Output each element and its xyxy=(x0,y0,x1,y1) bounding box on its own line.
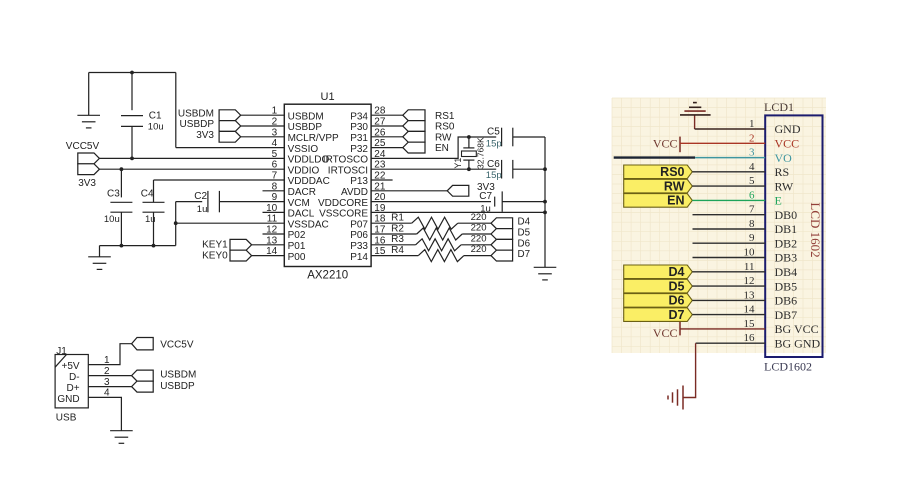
svg-text:E: E xyxy=(775,194,782,208)
wire USB pin 2 xyxy=(88,375,131,377)
wire LCD pin 15 BG VCC xyxy=(680,328,765,330)
svg-text:IRTOSCI: IRTOSCI xyxy=(328,165,368,176)
svg-text:8: 8 xyxy=(749,218,755,230)
svg-text:14: 14 xyxy=(266,246,278,257)
wire C2 left to ground rail xyxy=(175,202,177,246)
svg-text:10u: 10u xyxy=(148,121,164,132)
svg-text:3V3: 3V3 xyxy=(196,130,214,141)
port USBDP (USB) xyxy=(132,381,154,392)
wire pin 8 DACR stub xyxy=(263,190,285,192)
port EN xyxy=(403,142,425,153)
power port VCC (pin 2) xyxy=(653,136,680,152)
svg-text:RS0: RS0 xyxy=(660,165,684,179)
earth ground (LCD bottom) xyxy=(668,386,683,410)
wire USB pin 1 to VCC5V xyxy=(88,344,131,365)
wire R3 to port D6 xyxy=(461,244,491,246)
svg-text:MCLR/VPP: MCLR/VPP xyxy=(288,133,339,144)
svg-text:D4: D4 xyxy=(669,265,685,279)
svg-text:1: 1 xyxy=(749,118,755,130)
svg-text:U1: U1 xyxy=(321,91,335,103)
svg-text:P13: P13 xyxy=(350,176,368,187)
svg-text:P34: P34 xyxy=(350,111,368,122)
svg-text:2: 2 xyxy=(272,117,278,128)
svg-text:RS1: RS1 xyxy=(435,111,455,122)
port D5 xyxy=(491,229,513,240)
node C3/pin6 junction xyxy=(120,167,124,171)
wire pin 10 DACL stub xyxy=(263,211,285,213)
svg-text:7: 7 xyxy=(749,204,755,216)
svg-text:6: 6 xyxy=(272,160,278,171)
svg-text:RW: RW xyxy=(435,132,452,143)
wire pin 25 to port EN xyxy=(371,147,404,149)
port KEY1 (to pin 13) xyxy=(230,239,252,250)
wire USB pin 3 xyxy=(88,386,131,388)
svg-text:RW: RW xyxy=(664,179,685,193)
wire pin 15 to R4 xyxy=(371,255,418,257)
op-amp U1 AX2210 chip body xyxy=(284,91,371,281)
ground (USB) xyxy=(110,430,133,432)
svg-text:220: 220 xyxy=(471,212,487,223)
svg-text:10: 10 xyxy=(744,247,756,259)
svg-text:BG VCC: BG VCC xyxy=(775,322,819,336)
wire pin 2 xyxy=(241,125,285,127)
node C1/rail junction xyxy=(130,71,134,75)
svg-text:BG GND: BG GND xyxy=(775,336,821,350)
svg-text:RS0: RS0 xyxy=(435,122,455,133)
wire ground rail under C3 C4 xyxy=(100,245,176,247)
port D7 xyxy=(491,250,513,261)
port D6 xyxy=(491,239,513,250)
svg-text:3: 3 xyxy=(272,127,278,138)
wire pin 21 AVDD xyxy=(371,190,447,192)
wire pin 27 to port RS0 xyxy=(371,125,404,127)
svg-text:VSSIO: VSSIO xyxy=(288,144,319,155)
wire pin 9 VCM xyxy=(219,201,284,203)
wire pin 18 to R1 xyxy=(371,222,412,224)
resistor R2 220 xyxy=(391,223,486,240)
port RW xyxy=(403,131,425,142)
svg-text:10: 10 xyxy=(266,203,278,214)
svg-text:+5V: +5V xyxy=(62,361,80,372)
port USBDP (to pin 2) xyxy=(219,121,241,132)
port D7 (yellow) xyxy=(624,308,693,322)
svg-text:KEY1: KEY1 xyxy=(202,240,228,251)
svg-text:LCD1: LCD1 xyxy=(764,100,794,114)
svg-text:P33: P33 xyxy=(350,241,368,252)
ground (top left) xyxy=(77,73,100,128)
wire pin 3 xyxy=(241,136,285,138)
svg-text:12: 12 xyxy=(744,275,755,287)
svg-text:9: 9 xyxy=(749,232,755,244)
wire pin 1 xyxy=(241,114,285,116)
svg-text:P01: P01 xyxy=(288,241,306,252)
svg-text:DB2: DB2 xyxy=(775,236,798,250)
svg-text:USBDP: USBDP xyxy=(160,381,195,392)
svg-text:USB: USB xyxy=(56,413,77,424)
svg-text:3: 3 xyxy=(749,147,755,159)
svg-text:P06: P06 xyxy=(350,230,368,241)
svg-text:KEY0: KEY0 xyxy=(202,251,228,262)
power port 3V3 (left) xyxy=(78,164,100,175)
power port VCC (pin 15) xyxy=(653,322,680,340)
svg-text:DB1: DB1 xyxy=(775,222,798,236)
wire LCD pin 14 xyxy=(692,314,765,316)
svg-text:C5: C5 xyxy=(487,126,500,137)
wire rail down to pin 4 xyxy=(175,73,177,148)
wire LCD pin 16 BG GND xyxy=(696,342,766,344)
svg-text:D5: D5 xyxy=(669,279,685,293)
svg-text:1u: 1u xyxy=(145,214,156,225)
wire LCD pin 5 xyxy=(692,185,765,187)
svg-text:VCM: VCM xyxy=(288,198,310,209)
svg-text:220: 220 xyxy=(471,223,487,234)
svg-text:D6: D6 xyxy=(518,238,531,249)
svg-text:12: 12 xyxy=(266,225,278,236)
svg-text:LCD 1602: LCD 1602 xyxy=(808,202,823,257)
svg-text:GND: GND xyxy=(57,394,79,405)
svg-text:DB5: DB5 xyxy=(775,279,798,293)
wire pin16 down to earth xyxy=(683,343,696,397)
svg-text:R1: R1 xyxy=(391,213,404,224)
wire VSSIO pin 4 xyxy=(176,147,284,149)
svg-text:C2: C2 xyxy=(194,191,207,202)
svg-text:DB3: DB3 xyxy=(775,251,798,265)
svg-text:P14: P14 xyxy=(350,252,368,263)
node crystal top xyxy=(467,135,471,139)
svg-text:VSSDAC: VSSDAC xyxy=(288,219,329,230)
svg-text:VSSCORE: VSSCORE xyxy=(319,209,368,220)
crystal Y1 32.768K xyxy=(453,137,486,169)
svg-text:LCD1602: LCD1602 xyxy=(764,359,812,373)
svg-text:R3: R3 xyxy=(391,234,404,245)
svg-text:D7: D7 xyxy=(518,249,531,260)
svg-text:AX2210: AX2210 xyxy=(307,269,348,281)
svg-text:D-: D- xyxy=(69,372,80,383)
node C4/ground rail xyxy=(152,244,156,248)
capacitor C6 15p xyxy=(486,159,513,181)
wire pin 5 VDDLDO xyxy=(99,157,284,159)
wire pin 7 VDDDAC xyxy=(154,179,285,181)
svg-text:VDDDAC: VDDDAC xyxy=(288,176,330,187)
port D4 (yellow) xyxy=(624,265,693,279)
wire R2 to port D5 xyxy=(462,233,491,235)
wire pin 26 to port RW xyxy=(371,136,404,138)
wire pin 6 VDDIO xyxy=(99,168,284,170)
wire pin 23 IRTOSCI to C6 xyxy=(371,168,496,170)
wire LCD pin 2 VCC xyxy=(680,142,765,144)
resistor R4 220 xyxy=(391,244,486,261)
wire top rail VSSIO net xyxy=(89,72,176,74)
ground (right bus) xyxy=(534,266,557,268)
svg-text:USBDM: USBDM xyxy=(288,111,324,122)
wire pin 16 to R3 xyxy=(371,244,416,246)
svg-text:4: 4 xyxy=(272,138,278,149)
capacitor C1 10u xyxy=(121,73,164,159)
power port VCC5V (USB) xyxy=(132,338,154,350)
svg-text:1: 1 xyxy=(272,106,278,117)
wire pin 19 VSSCORE to bus xyxy=(371,211,545,213)
svg-text:P32: P32 xyxy=(350,144,368,155)
svg-text:DB6: DB6 xyxy=(775,294,798,308)
wire LCD pin 4 xyxy=(692,171,765,173)
resistor R1 220 xyxy=(391,212,486,229)
wire LCD pin 3 VO teal xyxy=(695,157,765,159)
svg-text:220: 220 xyxy=(471,244,487,255)
wire pin 20 VDDCORE xyxy=(371,201,491,203)
svg-text:P00: P00 xyxy=(288,252,306,263)
svg-text:RW: RW xyxy=(775,179,794,193)
node C1/pin5 junction xyxy=(130,157,134,161)
svg-text:R2: R2 xyxy=(391,223,404,234)
port USBDM (to pin 1) xyxy=(219,110,241,121)
svg-text:15p: 15p xyxy=(486,138,502,149)
wire LCD pin 1 GND xyxy=(695,128,766,130)
wire pin 14 xyxy=(252,255,285,257)
wire pin 22 P13 stub xyxy=(371,179,393,181)
connector J1 USB body xyxy=(55,346,88,424)
wire USB pin 4 to ground xyxy=(88,397,121,430)
port D6 (yellow) xyxy=(624,294,693,308)
svg-text:4: 4 xyxy=(749,161,755,173)
wire C6 to bus xyxy=(513,168,545,170)
port USBDM (USB) xyxy=(132,370,154,381)
svg-text:C3: C3 xyxy=(107,188,120,199)
svg-text:D5: D5 xyxy=(518,228,531,239)
svg-text:P02: P02 xyxy=(288,230,306,241)
svg-text:10u: 10u xyxy=(104,214,120,225)
capacitor C2 1u xyxy=(176,191,220,215)
svg-text:6: 6 xyxy=(749,189,755,201)
svg-text:VCC: VCC xyxy=(653,136,678,150)
capacitor C7 1u xyxy=(479,191,502,215)
svg-text:R4: R4 xyxy=(391,245,404,256)
wire C5 to bus xyxy=(513,136,545,138)
svg-text:GND: GND xyxy=(775,122,801,136)
port RS0 (yellow) xyxy=(624,165,693,179)
svg-text:C1: C1 xyxy=(149,111,162,122)
svg-text:11: 11 xyxy=(744,261,755,273)
capacitor C3 10u xyxy=(104,169,132,245)
port RS1 xyxy=(403,110,425,121)
svg-text:15p: 15p xyxy=(486,170,502,181)
svg-text:2: 2 xyxy=(749,132,755,144)
svg-text:P07: P07 xyxy=(350,219,368,230)
sheet background (Altium cream area with grid) xyxy=(612,98,826,353)
svg-text:VO: VO xyxy=(775,151,793,165)
svg-text:DB4: DB4 xyxy=(775,265,798,279)
svg-text:VCC: VCC xyxy=(653,326,678,340)
svg-text:Y1: Y1 xyxy=(453,158,463,169)
node C6/bus xyxy=(543,167,547,171)
svg-text:P30: P30 xyxy=(350,122,368,133)
svg-text:D6: D6 xyxy=(669,294,685,308)
wire LCD pin 12 xyxy=(692,285,765,287)
svg-text:D4: D4 xyxy=(518,217,531,228)
wire LCD pin 9 DB2 stub xyxy=(693,242,766,244)
port EN (yellow) xyxy=(624,194,693,208)
svg-text:13: 13 xyxy=(744,289,756,301)
svg-text:EN: EN xyxy=(667,194,684,208)
svg-text:11: 11 xyxy=(267,214,278,225)
power port VCC5V xyxy=(78,153,100,164)
resistor R3 220 xyxy=(391,233,486,250)
node VDDCORE/bus xyxy=(543,200,547,204)
wire pin 24 IRTOSCO xyxy=(371,137,496,158)
svg-text:5: 5 xyxy=(272,149,278,160)
svg-text:RS: RS xyxy=(775,165,790,179)
wire VO navy segment xyxy=(614,156,695,158)
wire LCD pin 7 DB0 stub xyxy=(693,214,766,216)
wire pin 13 xyxy=(252,244,285,246)
node C3/ground rail xyxy=(120,244,124,248)
svg-text:14: 14 xyxy=(744,304,756,316)
port D5 (yellow) xyxy=(624,279,693,293)
svg-text:DACR: DACR xyxy=(288,187,316,198)
node VSSCORE/bus xyxy=(543,211,547,215)
node crystal bottom xyxy=(467,167,471,171)
wire LCD pin 11 xyxy=(692,271,765,273)
wire LCD pin 6 xyxy=(692,199,765,201)
svg-text:32.768K: 32.768K xyxy=(476,137,486,169)
wire pin 12 P02 stub xyxy=(263,233,285,235)
svg-text:D7: D7 xyxy=(669,308,685,322)
svg-text:5: 5 xyxy=(749,175,755,187)
svg-text:VDDIO: VDDIO xyxy=(288,165,320,176)
svg-text:EN: EN xyxy=(435,143,449,154)
port 3V3 (to pin 3) xyxy=(219,131,241,142)
port RS0 xyxy=(403,121,425,132)
svg-text:13: 13 xyxy=(266,235,278,246)
svg-text:USBDM: USBDM xyxy=(178,108,214,119)
node C2-net/pin11 junction xyxy=(174,221,178,225)
svg-text:VCC5V: VCC5V xyxy=(160,340,194,351)
wire pin 11 VSSDAC xyxy=(176,222,285,224)
wire right vertical bus xyxy=(544,137,546,267)
svg-text:C7: C7 xyxy=(479,191,492,202)
svg-text:1u: 1u xyxy=(197,204,208,215)
wire LCD pin 8 DB1 stub xyxy=(693,228,766,230)
svg-text:AVDD: AVDD xyxy=(341,187,368,198)
svg-text:8: 8 xyxy=(272,181,278,192)
svg-text:USBDP: USBDP xyxy=(180,119,215,130)
power ground (LCD top) xyxy=(680,103,711,129)
wire pin 17 to R2 xyxy=(371,233,417,235)
svg-text:D+: D+ xyxy=(67,383,80,394)
svg-text:USBDM: USBDM xyxy=(160,370,196,381)
svg-text:DACL: DACL xyxy=(288,209,315,220)
svg-text:VDDCORE: VDDCORE xyxy=(318,198,368,209)
wire C7 to bus xyxy=(502,201,545,203)
ground (below C3) xyxy=(88,246,111,270)
capacitor C4 1u xyxy=(141,180,165,246)
svg-text:15: 15 xyxy=(744,318,756,330)
svg-text:C6: C6 xyxy=(487,159,500,170)
power port 3V3 (AVDD) xyxy=(447,185,469,196)
svg-text:IRTOSCO: IRTOSCO xyxy=(323,155,368,166)
svg-text:DB0: DB0 xyxy=(775,208,798,222)
wire R4 to port D7 xyxy=(464,255,491,257)
svg-text:P31: P31 xyxy=(350,133,368,144)
wire R1 to port D4 xyxy=(458,222,491,224)
svg-text:VCC: VCC xyxy=(775,137,800,151)
wire LCD pin 13 xyxy=(692,299,765,301)
port RW (yellow) xyxy=(624,179,693,193)
svg-text:USBDP: USBDP xyxy=(288,122,323,133)
svg-text:220: 220 xyxy=(471,233,487,244)
svg-text:C4: C4 xyxy=(141,188,154,199)
wire LCD pin 10 DB3 stub xyxy=(693,257,766,259)
connector LCD1 body xyxy=(764,100,823,373)
svg-text:VCC5V: VCC5V xyxy=(66,141,100,152)
svg-text:3V3: 3V3 xyxy=(78,178,96,189)
port D4 xyxy=(491,218,513,229)
capacitor C5 15p xyxy=(486,126,513,149)
wire pin 28 to port RS1 xyxy=(371,114,404,116)
svg-text:J1: J1 xyxy=(56,346,67,357)
svg-text:DB7: DB7 xyxy=(775,308,798,322)
svg-text:7: 7 xyxy=(272,171,278,182)
port KEY0 (to pin 14) xyxy=(230,250,252,261)
svg-text:16: 16 xyxy=(744,332,756,344)
svg-text:9: 9 xyxy=(272,192,278,203)
